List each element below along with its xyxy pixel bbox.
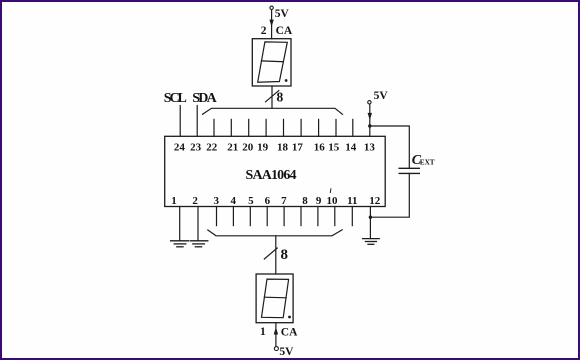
pin number labels top row [174,142,376,154]
bus slash (8 lines) top [266,91,279,102]
wire pin 9 to bottom bus [317,207,319,226]
wire pin 7 to bottom bus [283,207,285,226]
artifact tick above pin 10 [329,189,332,193]
node +5V terminal (right, VCC) [368,101,371,104]
ground (pin 2) [190,241,207,247]
wire pin 21 to bus [230,119,232,136]
wire pin 2 to ground [197,207,199,241]
wire pin 20 to bus [248,119,250,136]
wire DS2 CA pin to 5V terminal [275,323,277,347]
svg-text:5: 5 [248,195,254,207]
svg-text:19: 19 [257,142,269,154]
wire pin 8 to bottom bus [300,207,302,226]
svg-text:17: 17 [292,142,304,154]
wire pin 4 to bottom bus [232,207,234,226]
svg-text:5V: 5V [374,90,389,102]
wire bottom bus to DS2 [275,236,277,274]
IC U1 SAA1064 body [165,136,386,206]
svg-text:18: 18 [277,142,289,154]
arrowhead down (current into DS1) [269,20,273,27]
display DS2 (7-segment, bottom) [256,274,293,323]
svg-text:CA: CA [281,326,298,338]
wire pin 6 to bottom bus [266,207,268,226]
svg-text:7: 7 [281,195,287,207]
wire 5V terminal to display DS1 CA pin [271,10,273,39]
wire pin 16 to bus [318,119,320,136]
svg-text:2: 2 [192,195,198,207]
svg-text:SAA1064: SAA1064 [246,168,297,183]
wire pin 12 to ground [369,207,371,239]
bus brace top (collects pins 22-15) [203,108,343,114]
junction node pin 13 / CEXT [368,124,371,127]
display DS1 decimal point [285,79,288,82]
svg-text:21: 21 [227,142,238,154]
svg-text:6: 6 [265,195,271,207]
wire junction to capacitor CEXT top [370,126,410,168]
svg-text:14: 14 [345,142,357,154]
display DS2 digit segments [262,279,289,318]
wire pin 3 to bottom bus [216,207,218,226]
svg-text:13: 13 [364,142,376,154]
label CEXT [412,153,435,168]
wire DS1 to segment bus [271,86,273,108]
capacitor CEXT plates [399,168,419,173]
svg-text:16: 16 [314,142,326,154]
svg-text:5V: 5V [279,346,294,358]
wire SDA to pin 23 [196,106,198,137]
svg-text:4: 4 [230,195,236,207]
svg-text:SCL: SCL [164,91,187,106]
svg-text:1: 1 [260,326,266,338]
wire pin 17 to bus [300,119,302,136]
svg-text:8: 8 [302,195,308,207]
bus slash (8 lines) bottom [264,248,277,259]
wire 5V to pin 13 [369,104,371,136]
junction node pin 12 / CEXT [369,216,372,219]
svg-text:3: 3 [214,195,220,207]
display DS2 decimal point [288,316,291,319]
arrowhead down (VCC into pin 13) [368,113,372,120]
wire pin 11 [351,207,353,226]
svg-text:24: 24 [174,142,186,154]
svg-text:EXT: EXT [420,158,435,166]
svg-text:SDA: SDA [192,91,217,106]
svg-text:CA: CA [276,25,293,37]
wire pin 19 to bus [265,119,267,136]
svg-text:11: 11 [347,195,357,207]
node +5V terminal (top, display DS1 anode) [270,6,273,9]
wire pin 18 to bus [283,119,285,136]
bus brace bottom (collects pins 3-10) [208,230,342,236]
arrowhead up (current into DS2 CA) [274,327,278,335]
node +5V terminal (bottom, display DS2 anode) [274,347,278,351]
wire capacitor CEXT bottom to pin 12 junction [370,173,409,217]
ground (pin 1) [171,241,189,247]
svg-text:20: 20 [242,142,254,154]
svg-text:23: 23 [190,142,202,154]
svg-text:8: 8 [277,90,284,105]
svg-text:5V: 5V [275,8,290,20]
svg-text:2: 2 [261,25,267,37]
svg-text:1: 1 [171,195,177,207]
pin number labels bottom row [171,195,380,207]
svg-text:8: 8 [281,247,289,263]
wire pin 1 to ground [179,207,181,241]
wire pin 10 to bottom bus [334,207,336,226]
wire pin 5 to bottom bus [249,207,251,226]
svg-text:15: 15 [328,142,340,154]
svg-text:12: 12 [369,195,381,207]
wire pin 15 to bus [335,119,337,136]
wire pin 14 [352,119,354,136]
ground (pin 12) [363,239,380,245]
display DS1 (7-segment, top) [252,39,291,86]
wire pin 22 to bus [213,119,215,136]
svg-text:9: 9 [316,195,322,207]
display DS1 digit segments [258,42,288,82]
wire SCL to pin 24 [179,106,181,137]
svg-text:10: 10 [327,195,339,207]
svg-text:22: 22 [206,142,218,154]
